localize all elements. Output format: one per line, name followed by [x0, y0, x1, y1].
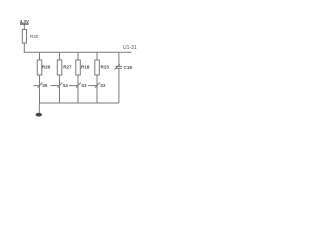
wire bus to C19 [118, 52, 120, 66]
resistor R18 [76, 60, 81, 75]
svg-text:R26: R26 [42, 65, 51, 70]
ground [36, 113, 42, 117]
wire R27 to bottom [59, 75, 61, 103]
svg-text:R20: R20 [30, 34, 39, 39]
switch S4 lever [58, 83, 63, 88]
branch 2 wire [59, 52, 61, 60]
svg-text:S5: S5 [42, 83, 48, 88]
wire C19 to bottom [118, 68, 120, 103]
svg-text:R27: R27 [63, 65, 72, 70]
wire R18 to bottom [77, 75, 79, 103]
svg-text:R18: R18 [81, 65, 90, 70]
bus net U1-31 [24, 51, 132, 53]
svg-text:U1-31: U1-31 [123, 45, 137, 51]
svg-text:S2: S2 [100, 83, 106, 88]
svg-text:R23: R23 [101, 65, 110, 70]
wire power to R20 [23, 25, 25, 30]
svg-text:S4: S4 [63, 83, 69, 88]
switch S2 lever [95, 83, 100, 88]
switch S4 lead [51, 85, 60, 87]
branch 4 wire [96, 52, 98, 60]
ground wire [38, 103, 40, 113]
wire R26 to bottom [39, 75, 41, 103]
resistor R23 [95, 60, 100, 75]
branch 3 wire [77, 52, 79, 60]
svg-text:C19: C19 [124, 65, 133, 70]
branch 1 wire [39, 52, 41, 60]
resistor R26 [37, 60, 42, 75]
svg-text:S3: S3 [81, 83, 87, 88]
switch S2 lead [88, 85, 97, 87]
power bar [20, 23, 29, 25]
switch S5 lever [38, 83, 43, 88]
resistor R20 [22, 30, 26, 44]
switch S5 lead [34, 85, 40, 87]
resistor R27 [57, 60, 62, 75]
capacitor C19 [115, 65, 122, 67]
wire R23 to bottom [96, 75, 98, 103]
switch S3 lead [69, 85, 78, 87]
switch S3 lever [76, 83, 81, 88]
bottom bus [39, 102, 119, 104]
wire R20 to bus [23, 43, 25, 52]
